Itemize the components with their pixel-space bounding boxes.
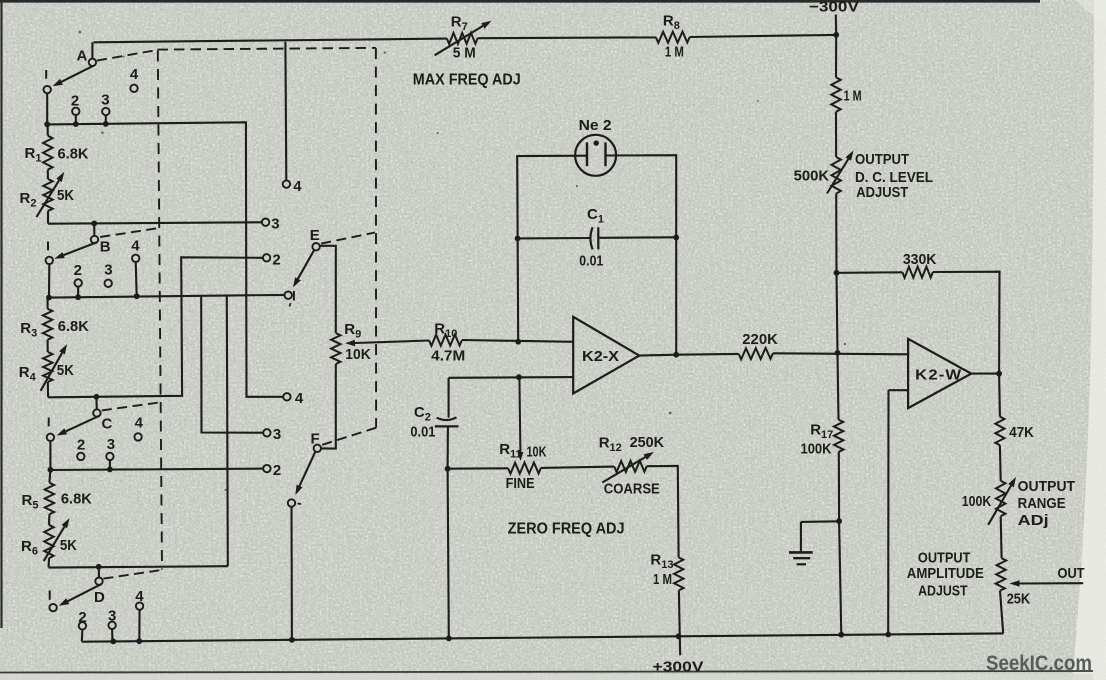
svg-text:4: 4	[295, 390, 304, 407]
svg-text:5 M: 5 M	[453, 45, 476, 62]
svg-text:K2-W: K2-W	[915, 367, 962, 384]
svg-text:220K: 220K	[742, 331, 778, 348]
svg-text:25K: 25K	[1007, 590, 1031, 607]
svg-text:4: 4	[131, 238, 140, 255]
svg-text:2: 2	[74, 262, 82, 279]
svg-text:OUTPUT: OUTPUT	[1018, 478, 1076, 495]
svg-text:3: 3	[101, 92, 109, 109]
svg-text:3: 3	[271, 215, 279, 232]
svg-text:5K: 5K	[57, 362, 74, 379]
svg-text:6.8K: 6.8K	[58, 318, 89, 335]
svg-text:47K: 47K	[1009, 424, 1034, 441]
svg-text:K2-X: K2-X	[582, 348, 619, 365]
svg-text:2: 2	[273, 462, 281, 479]
svg-text:FINE: FINE	[506, 475, 535, 492]
svg-text:B: B	[100, 239, 111, 256]
svg-text:100K: 100K	[962, 493, 992, 510]
svg-text:−300V: −300V	[809, 0, 859, 16]
svg-text:3: 3	[107, 436, 115, 453]
svg-text:OUTPUT: OUTPUT	[855, 151, 909, 168]
svg-text:3: 3	[104, 261, 112, 278]
svg-text:1 M: 1 M	[844, 88, 862, 105]
svg-text:2: 2	[77, 436, 85, 453]
svg-text:A: A	[77, 48, 88, 65]
svg-text:ZERO FREQ ADJ: ZERO FREQ ADJ	[508, 521, 625, 538]
svg-text:5K: 5K	[57, 187, 74, 204]
svg-text:ADJUST: ADJUST	[918, 583, 968, 600]
svg-text:4.7M: 4.7M	[431, 348, 465, 365]
svg-text:3: 3	[273, 426, 281, 443]
svg-text:ADJUST: ADJUST	[856, 184, 908, 201]
svg-text:C: C	[102, 416, 113, 433]
svg-text:D: D	[94, 589, 105, 606]
svg-text:6.8K: 6.8K	[58, 146, 89, 163]
svg-text:Ne 2: Ne 2	[579, 117, 612, 134]
svg-text:0.01: 0.01	[579, 253, 603, 270]
svg-text:RANGE: RANGE	[1018, 495, 1066, 512]
svg-text:0.01: 0.01	[410, 423, 435, 440]
svg-text:+300V: +300V	[653, 658, 704, 675]
svg-text:330K: 330K	[903, 251, 937, 268]
svg-text:5K: 5K	[60, 537, 77, 554]
svg-text:E: E	[310, 227, 320, 244]
svg-text:ADj: ADj	[1018, 512, 1049, 529]
svg-text:1 M: 1 M	[665, 44, 684, 61]
svg-text:100K: 100K	[801, 441, 832, 458]
svg-text:COARSE: COARSE	[604, 481, 660, 498]
svg-text:4: 4	[130, 66, 139, 83]
svg-text:MAX FREQ ADJ: MAX FREQ ADJ	[413, 72, 521, 89]
svg-text:500K: 500K	[794, 168, 830, 185]
svg-text:4: 4	[293, 178, 302, 195]
svg-text:6.8K: 6.8K	[61, 491, 92, 508]
svg-text:10K: 10K	[345, 346, 371, 363]
svg-text:OUT: OUT	[1058, 565, 1085, 582]
svg-text:2: 2	[272, 251, 280, 268]
svg-text:F: F	[311, 431, 320, 448]
svg-text:250K: 250K	[630, 434, 665, 451]
svg-text:SeekIC.com: SeekIC.com	[986, 652, 1092, 675]
svg-text:OUTPUT: OUTPUT	[918, 550, 971, 567]
svg-text:4: 4	[135, 415, 144, 432]
svg-text:10K: 10K	[527, 444, 547, 461]
svg-text:1 M: 1 M	[653, 571, 672, 588]
svg-text:AMPLITUDE: AMPLITUDE	[907, 565, 984, 582]
